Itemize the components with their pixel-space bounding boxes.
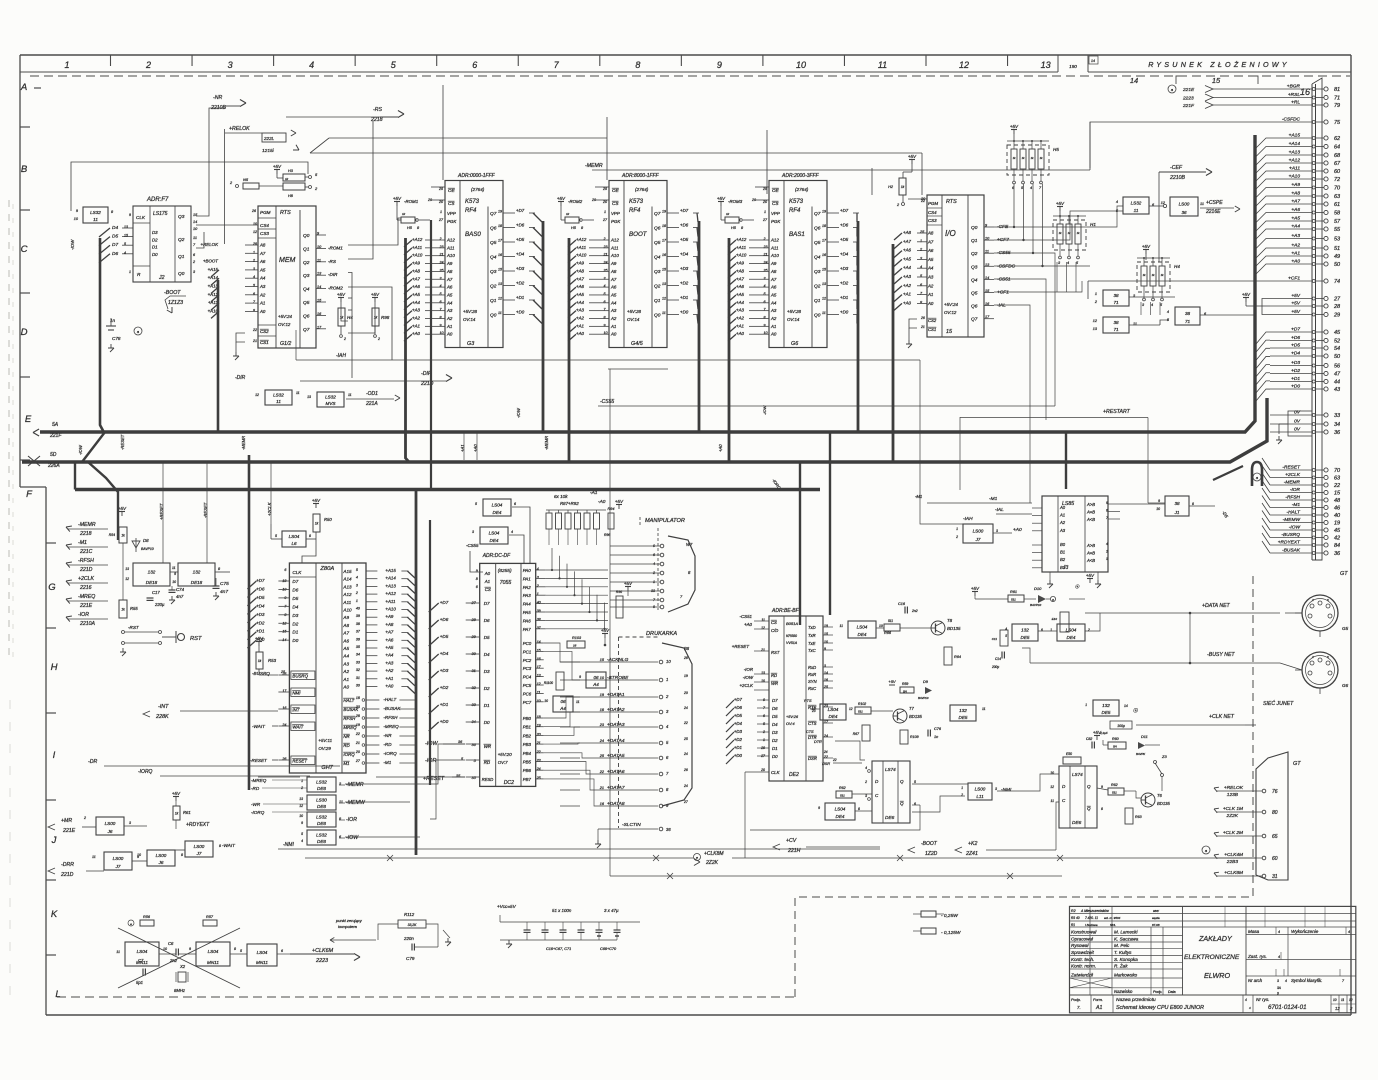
svg-text:+RESTART: +RESTART [1103,409,1131,415]
svg-text:23: 23 [599,723,605,727]
svg-text:C18+C67, C71: C18+C67, C71 [546,947,571,951]
svg-text:20: 20 [762,200,767,204]
svg-text:A0: A0 [770,332,777,337]
svg-text:+A1: +A1 [736,323,744,328]
svg-text:PGM: PGM [260,210,271,215]
svg-text:+5V: +5V [601,628,610,633]
svg-text:A9: A9 [342,615,349,620]
svg-text:-DR: -DR [88,759,97,765]
svg-text:16: 16 [537,657,541,661]
svg-text:-DIR: -DIR [328,272,338,277]
svg-text:A8: A8 [446,269,453,274]
svg-text:-OD1: -OD1 [366,391,378,397]
svg-text:A1: A1 [446,324,453,329]
svg-text:Q0: Q0 [490,313,497,319]
svg-text:Q5: Q5 [654,240,661,246]
svg-text:Sprawdzeit: Sprawdzeit [1071,950,1094,955]
svg-text:PB0: PB0 [523,716,532,721]
svg-text:36: 36 [356,637,360,641]
svg-text:A8: A8 [259,243,266,248]
svg-text:A10: A10 [770,253,779,258]
svg-text:27: 27 [683,800,688,804]
svg-text:9: 9 [818,806,820,810]
svg-text:+5V: +5V [888,679,896,684]
svg-text:Q4: Q4 [490,255,497,261]
svg-text:13: 13 [761,671,765,675]
svg-text:A1: A1 [1095,1005,1102,1011]
svg-text:1k: 1k [374,316,378,320]
svg-text:13: 13 [498,282,502,286]
svg-text:R. Żak: R. Żak [1114,963,1128,969]
svg-text:CS3: CS3 [260,231,269,236]
svg-text:+D4: +D4 [734,721,743,726]
svg-text:ADR:F7: ADR:F7 [146,197,169,203]
svg-text:+A4: +A4 [385,653,393,658]
svg-text:38: 38 [1185,311,1191,316]
svg-text:PA1: PA1 [523,576,532,581]
svg-text:Q7: Q7 [490,211,497,217]
svg-text:3: 3 [228,60,233,70]
svg-text:+D5: +D5 [680,237,689,242]
svg-text:A: A [20,82,27,93]
svg-text:PA0: PA0 [523,568,532,573]
svg-text:+5V:26: +5V:26 [786,715,799,719]
svg-text:10: 10 [761,679,765,683]
svg-text:+A10: +A10 [736,253,747,258]
svg-text:PC2: PC2 [523,658,532,663]
svg-text:LS04: LS04 [828,707,839,712]
svg-text:Opracował: Opracował [1071,937,1094,942]
svg-text:+D1: +D1 [256,629,265,634]
svg-text:B051A: B051A [786,621,798,626]
svg-text:A4: A4 [592,682,599,687]
svg-text:Data: Data [1168,990,1176,994]
svg-text:PA4: PA4 [523,602,532,607]
svg-text:2: 2 [955,535,958,539]
svg-text:Q2: Q2 [654,284,661,290]
svg-text:RYSUNEK ZŁOŻENIOWY: RYSUNEK ZŁOŻENIOWY [1148,60,1290,69]
svg-text:+A1: +A1 [903,292,911,297]
svg-text:C75: C75 [220,581,229,587]
svg-text:11: 11 [662,311,666,315]
svg-text:+CLK8M: +CLK8M [1224,870,1243,876]
svg-text:1: 1 [1095,292,1097,296]
svg-text:55: 55 [1334,227,1341,233]
svg-text:+D2: +D2 [734,737,743,742]
svg-text:(8255): (8255) [498,568,512,574]
svg-text:18: 18 [662,224,666,228]
svg-text:A14: A14 [342,577,352,582]
svg-text:Q0: Q0 [178,271,185,277]
svg-text:10: 10 [1156,507,1160,511]
svg-text:+A5: +A5 [412,292,420,297]
svg-text:B0: B0 [1060,542,1066,547]
svg-text:4n7: 4n7 [220,589,228,595]
svg-text:C78: C78 [112,336,121,341]
svg-text:RD: RD [484,760,491,765]
svg-text:RF4: RF4 [629,208,641,214]
svg-text:A=B: A=B [1086,510,1095,515]
svg-text:+5V: +5V [393,196,402,201]
svg-text:221D: 221D [79,567,93,573]
svg-text:06: 06 [593,675,599,680]
svg-text:RTS: RTS [804,699,812,703]
svg-text:+D7: +D7 [680,208,689,213]
svg-text:BAVP10: BAVP10 [141,547,154,551]
svg-text:+D0: +D0 [516,310,525,315]
svg-text:LS00: LS00 [156,853,167,858]
svg-text:-NR: -NR [213,95,222,101]
svg-text:-CS55: -CS55 [600,399,614,405]
svg-text:132: 132 [148,570,156,575]
svg-text:11: 11 [339,800,343,804]
svg-text:HALT: HALT [343,698,354,703]
svg-text:+CLK8M: +CLK8M [704,851,724,857]
svg-text:R96: R96 [604,533,610,537]
svg-text:-MREQ: -MREQ [383,724,399,729]
svg-text:VPP: VPP [447,211,456,216]
svg-text:LS04: LS04 [835,807,846,812]
svg-text:A11: A11 [446,245,455,250]
svg-text:+5V: +5V [172,791,181,796]
svg-text:511: 511 [858,710,863,714]
svg-text:13: 13 [662,282,666,286]
svg-text:R102: R102 [858,702,866,706]
svg-text:CS3: CS3 [928,218,937,223]
svg-text:Q6: Q6 [490,226,497,232]
svg-text:R3 40: R3 40 [1071,916,1080,920]
svg-text:C14: C14 [995,657,1001,661]
svg-text:J3: J3 [1062,565,1069,571]
svg-text:-M1: -M1 [915,494,922,499]
svg-text:CLK: CLK [771,770,781,775]
svg-text:RTS: RTS [946,199,957,205]
svg-text:DE5: DE5 [959,715,968,720]
svg-text:7055: 7055 [500,580,512,586]
svg-text:5: 5 [240,949,242,953]
svg-text:8: 8 [1101,807,1103,811]
svg-text:Q7: Q7 [814,211,821,217]
svg-text:25: 25 [599,754,605,758]
svg-text:8: 8 [1192,502,1194,506]
svg-text:A5: A5 [927,257,934,262]
svg-text:+D5: +D5 [516,237,525,242]
svg-text:RST: RST [190,636,202,642]
svg-text:2210A: 2210A [79,621,96,627]
svg-text:-CS51: -CS51 [740,614,753,619]
svg-text:11: 11 [348,393,352,397]
svg-text:I/O: I/O [945,229,956,238]
svg-text:PB7: PB7 [523,777,532,782]
svg-text:L: L [55,989,60,1000]
svg-text:13: 13 [307,395,311,399]
svg-text:C68+C70: C68+C70 [600,947,617,951]
svg-text:+DATA NET: +DATA NET [1202,603,1231,609]
svg-text:29: 29 [1333,313,1340,319]
svg-text:2n2: 2n2 [911,609,918,613]
svg-text:A2: A2 [1059,520,1066,525]
svg-text:-IOW: -IOW [346,835,359,841]
svg-text:Q3: Q3 [971,264,978,270]
svg-text:6: 6 [472,60,477,70]
svg-text:18: 18 [356,696,360,700]
svg-text:2218: 2218 [370,117,383,123]
svg-text:+A2: +A2 [412,316,420,321]
svg-text:20: 20 [602,200,607,204]
svg-text:Konstruował: Konstruował [1071,930,1097,935]
svg-text:RST: RST [771,650,780,655]
svg-text:LS00: LS00 [113,856,124,861]
svg-text:C6: C6 [168,941,174,946]
svg-text:11: 11 [537,690,541,694]
svg-text:220µ: 220µ [154,602,165,607]
svg-text:15: 15 [1334,491,1341,497]
svg-text:9: 9 [189,947,191,951]
svg-text:D5: D5 [292,596,298,601]
svg-text:+5V: +5V [337,292,346,297]
svg-text:25: 25 [823,685,828,689]
svg-text:LS04: LS04 [137,949,148,954]
svg-text:-M1: -M1 [989,496,998,502]
svg-text:RxR: RxR [808,672,816,677]
svg-text:+5V: +5V [1056,201,1065,206]
svg-text:ADR:0000-1FFF: ADR:0000-1FFF [457,173,496,179]
svg-text:221F: 221F [49,433,62,439]
svg-text:ADR:2000-3FFF: ADR:2000-3FFF [781,173,820,179]
svg-text:RD: RD [771,673,777,678]
svg-text:-M1: -M1 [383,760,391,765]
svg-text:2218: 2218 [79,531,92,537]
svg-text:+CV: +CV [786,838,797,844]
svg-text:Q2: Q2 [178,237,185,243]
svg-text:-DIR: -DIR [235,375,246,381]
svg-text:R98: R98 [381,315,390,320]
svg-text:+A4: +A4 [903,265,911,270]
svg-text:+A10: +A10 [385,607,396,612]
svg-text:1: 1 [1085,703,1087,707]
svg-text:CLK: CLK [292,570,302,575]
svg-text:54: 54 [1334,346,1340,352]
svg-text:D1: D1 [484,703,490,708]
svg-text:38: 38 [1113,293,1119,298]
svg-text:R1: R1 [1071,923,1075,927]
svg-text:200µ: 200µ [991,665,999,669]
svg-text:-RD: -RD [383,742,392,747]
svg-text:6: 6 [1106,509,1108,513]
svg-text:D6: D6 [112,251,118,257]
svg-text:G1/2: G1/2 [280,341,291,347]
svg-text:LS32: LS32 [316,815,327,820]
svg-text:BAVP10: BAVP10 [918,696,929,700]
svg-text:4: 4 [1348,930,1350,934]
svg-text:-RS: -RS [328,259,337,264]
svg-text:DE5: DE5 [1021,635,1030,640]
svg-text:DE4: DE4 [858,632,867,637]
svg-text:Q1: Q1 [303,246,310,252]
svg-text:R62: R62 [839,786,846,790]
svg-text:R112: R112 [404,912,415,917]
svg-text:+D3: +D3 [840,266,849,271]
svg-text:63: 63 [1334,194,1341,200]
svg-text:9: 9 [717,60,722,70]
svg-text:8: 8 [234,947,236,951]
svg-text:A11: A11 [342,600,351,605]
svg-text:B: B [21,164,28,175]
svg-text:11: 11 [982,707,986,711]
svg-text:A2: A2 [446,316,453,321]
svg-text:25: 25 [683,737,688,741]
svg-text:2Z41: 2Z41 [965,851,978,857]
svg-text:1k: 1k [315,522,319,526]
svg-text:12: 12 [255,393,259,397]
svg-text:21: 21 [920,325,925,329]
svg-text:12: 12 [125,577,129,581]
svg-text:8: 8 [181,853,183,857]
svg-text:+D2: +D2 [440,685,449,690]
svg-text:- 0,125W: - 0,125W [941,930,961,936]
svg-text:D3: D3 [484,669,490,674]
svg-text:+RDYEXT: +RDYEXT [186,822,210,828]
svg-text:40: 40 [356,607,360,611]
svg-text:53: 53 [1334,237,1341,243]
svg-text:A<B: A<B [1086,517,1095,522]
svg-text:75: 75 [1334,120,1341,126]
svg-text:RxC: RxC [808,686,817,691]
svg-text:+CLK NET: +CLK NET [1209,714,1235,720]
svg-text:M1: M1 [343,761,350,766]
svg-text:+A2: +A2 [576,316,584,321]
svg-text:G: G [48,582,55,593]
svg-text:13: 13 [299,797,303,801]
svg-text:12: 12 [299,804,303,808]
svg-text:-A0: -A0 [598,499,606,505]
svg-text:R55: R55 [130,606,138,611]
svg-text:+A0: +A0 [903,300,911,305]
svg-text:2Z2K: 2Z2K [705,860,719,866]
svg-text:10: 10 [824,640,828,644]
svg-text:20: 20 [683,691,688,695]
svg-text:A4: A4 [559,706,566,711]
svg-text:DSR: DSR [808,756,817,761]
svg-text:-MEMR: -MEMR [544,436,549,450]
svg-text:1: 1 [956,527,958,531]
svg-text:-IOW: -IOW [425,741,438,747]
svg-text:A3: A3 [259,284,266,289]
svg-text:T6: T6 [1157,793,1163,798]
svg-text:TxD: TxD [808,625,816,630]
svg-text:A12: A12 [446,238,455,243]
svg-text:7.: 7. [1077,1005,1081,1010]
svg-text:68: 68 [1334,153,1341,159]
svg-text:+CF1: +CF1 [997,290,1009,296]
svg-text:R2: R2 [1071,909,1076,913]
svg-text:+A2: +A2 [736,316,744,321]
svg-text:R61: R61 [1010,590,1017,594]
svg-text:34: 34 [1334,422,1340,428]
svg-text:2: 2 [960,793,963,797]
svg-text:G6: G6 [1342,683,1349,688]
svg-text:+A1: +A1 [385,676,393,681]
svg-text:-A1: -A1 [590,490,598,496]
svg-text:5p1: 5p1 [136,980,143,985]
svg-text:22: 22 [832,758,837,762]
svg-text:+D7: +D7 [516,208,525,213]
svg-text:Q3: Q3 [814,269,821,275]
svg-text:-IOW: -IOW [743,675,754,680]
svg-text:I: I [53,750,56,761]
svg-text:11: 11 [92,855,96,859]
svg-text:+5V: +5V [273,164,282,169]
svg-text:-WR: -WR [251,802,261,807]
svg-text:221H: 221H [787,848,801,854]
svg-text:H4: H4 [1174,264,1180,269]
svg-text:1k: 1k [121,534,125,538]
svg-text:+5V: +5V [615,499,624,504]
svg-text:BAVP10: BAVP10 [1030,603,1042,607]
svg-text:D7: D7 [484,601,490,606]
svg-text:LS30: LS30 [316,798,327,803]
svg-text:+5V: +5V [312,498,321,503]
svg-text:10: 10 [796,60,806,70]
svg-text:71: 71 [1113,327,1119,332]
svg-text:+D6: +D6 [256,586,265,591]
svg-text:A1: A1 [484,579,491,584]
svg-text:13: 13 [125,567,129,571]
svg-text:16: 16 [573,644,577,648]
svg-text:C79: C79 [406,956,415,961]
svg-text:D1: D1 [292,630,298,635]
svg-text:-CS51: -CS51 [997,276,1011,282]
svg-text:S. Konopka: S. Konopka [1114,957,1138,962]
svg-text:22: 22 [355,732,360,736]
svg-text:BD135: BD135 [1157,801,1170,806]
svg-text:1215i: 1215i [262,148,275,154]
svg-text:A2: A2 [610,316,617,321]
svg-text:PB5: PB5 [523,760,532,765]
svg-text:38: 38 [1113,320,1119,325]
svg-text:(2764): (2764) [471,187,485,192]
svg-text:R94: R94 [608,507,615,511]
svg-text:N5: N5 [243,177,249,182]
svg-text:24: 24 [683,752,688,756]
svg-text:Q2: Q2 [814,284,821,290]
svg-text:+5V:20: +5V:20 [498,752,513,757]
svg-text:A3: A3 [1059,528,1066,533]
svg-text:+5V: +5V [1086,573,1095,578]
svg-text:1: 1 [961,786,963,790]
svg-text:6: 6 [281,949,283,953]
svg-text:Q: Q [1087,784,1091,789]
svg-text:-CS55: -CS55 [466,543,479,548]
svg-text:22: 22 [599,770,605,774]
svg-text:+A8: +A8 [576,268,584,273]
svg-text:R: R [137,272,141,278]
svg-text:G6: G6 [791,341,798,347]
svg-text:24: 24 [683,784,688,788]
svg-text:LS04: LS04 [257,950,268,955]
svg-text:-WAIT: -WAIT [222,843,236,848]
svg-text:D6: D6 [772,706,778,711]
svg-text:OE: OE [612,188,620,193]
svg-text:R57: R57 [206,915,214,919]
svg-text:9: 9 [301,821,303,825]
svg-text:Q3: Q3 [654,269,661,275]
svg-text:15: 15 [1212,76,1221,85]
svg-text:+A15: +A15 [385,568,396,573]
svg-text:A1: A1 [770,324,777,329]
svg-text:+A1: +A1 [576,323,584,328]
svg-text:LS04: LS04 [492,503,503,508]
